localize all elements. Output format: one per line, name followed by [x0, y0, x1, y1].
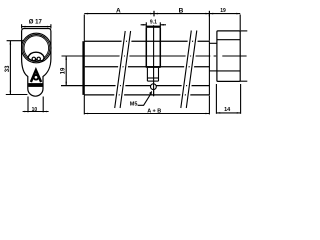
knob stub bottom	[240, 80, 247, 82]
dim 10 arrow right	[43, 111, 47, 113]
dim top line	[84, 13, 240, 15]
svg-text:A: A	[116, 7, 121, 14]
break line 4	[186, 31, 197, 109]
dim 14 line	[216, 112, 240, 114]
svg-text:M5: M5	[130, 102, 138, 108]
dim A arrow right	[150, 13, 154, 15]
knob inner line bottom	[217, 70, 240, 72]
dim top extension right	[239, 15, 241, 31]
dim A+B extension right	[208, 96, 210, 115]
face cap	[82, 41, 84, 95]
knob neck bottom line	[209, 70, 217, 72]
dim B arrow right	[206, 13, 210, 15]
svg-text:33: 33	[5, 65, 11, 72]
dim 19 left line	[65, 56, 67, 86]
cam center line	[153, 25, 155, 96]
break line 2	[120, 31, 131, 108]
dim 33 line	[9, 41, 11, 95]
dim 14 extension right	[240, 84, 242, 114]
M5 leader arrow	[149, 91, 152, 95]
dim 14 arrow right	[237, 112, 241, 114]
center line dash	[214, 55, 217, 57]
break line 3	[181, 31, 192, 109]
dim 10 extension left	[27, 97, 29, 113]
logo A	[31, 70, 41, 82]
svg-text:B: B	[179, 7, 184, 14]
dim 33 extension bottom	[6, 94, 28, 96]
dim 9.1 arrow right	[160, 24, 164, 26]
svg-text:9.1: 9.1	[150, 20, 157, 26]
plug ring inner	[24, 36, 49, 61]
dim Ø17 arrow right	[47, 26, 51, 28]
dim 19 arrow bottom	[65, 82, 67, 86]
cylinder hull outline	[22, 29, 51, 97]
dim A+B extension left	[83, 96, 85, 115]
knob stub top	[240, 30, 247, 32]
dim 33 arrow bottom	[10, 91, 12, 95]
dim 19t arrow left	[209, 13, 213, 15]
cam center line through hole	[153, 84, 155, 96]
dim Ø17 extension left	[21, 24, 23, 28]
dim 10 arrow left	[24, 111, 28, 113]
cam lower left edge	[146, 68, 148, 81]
dim 9.1 extension left	[145, 22, 147, 27]
keyway hole left	[32, 57, 35, 60]
svg-text:14: 14	[224, 107, 231, 113]
M5 leader	[138, 94, 151, 106]
dim 33 extension top	[7, 40, 24, 42]
body top line	[84, 40, 209, 42]
body bottom line	[84, 94, 209, 96]
break line 1	[115, 31, 126, 108]
cam left edge	[145, 28, 147, 68]
dim 14 arrow left	[216, 112, 220, 114]
svg-text:19: 19	[220, 8, 226, 14]
dim 10 extension right	[42, 97, 44, 113]
logo A loop	[34, 75, 39, 80]
M5 hole	[151, 84, 157, 90]
svg-text:A + B: A + B	[147, 108, 161, 114]
dim top extension mid	[208, 15, 210, 41]
dim 33 arrow top	[10, 41, 12, 45]
center line	[62, 55, 211, 57]
dim 9.1 line right	[160, 24, 166, 26]
dim 14 extension left	[215, 84, 217, 114]
cam lower line 2	[147, 80, 158, 82]
knob neck top line	[209, 42, 217, 44]
dim Ø17 extension right	[50, 24, 52, 28]
dim A arrow left	[84, 13, 88, 15]
body lower line	[61, 85, 209, 87]
center line knob	[222, 55, 246, 57]
cam bottom bar	[146, 66, 160, 68]
plug ring outer	[22, 33, 52, 63]
plug ring middle	[23, 35, 50, 62]
svg-text:Ø 17: Ø 17	[29, 19, 43, 25]
dim top extension left	[83, 15, 85, 41]
cam lower right edge	[158, 68, 160, 81]
svg-text:10: 10	[32, 107, 38, 113]
dim A+B arrow right	[206, 113, 210, 115]
break line gap masks	[115, 31, 197, 109]
dim 19t arrow right	[236, 13, 240, 15]
dim A+B arrow left	[84, 113, 88, 115]
dim Ø17 line	[22, 26, 51, 28]
dim B arrow left	[154, 13, 158, 15]
dim 9.1 arrow left	[143, 24, 147, 26]
keyway hole right	[37, 57, 40, 60]
dim tick A/B	[153, 11, 155, 17]
knob outline	[217, 31, 240, 82]
dim 9.1 line left	[141, 24, 147, 26]
face bar (black)	[28, 83, 42, 87]
cam lower line 1	[147, 77, 158, 79]
cam top bar	[146, 26, 161, 28]
body right edge	[208, 41, 210, 95]
knob inner line top	[217, 39, 240, 41]
dim tick B/19	[208, 11, 210, 17]
dim A+B line	[84, 113, 209, 115]
dim Ø17 arrow left	[22, 26, 26, 28]
dim 10 line	[23, 111, 49, 113]
body mid line	[85, 66, 210, 68]
keyway profile	[28, 52, 44, 61]
dim 9.1 extension right	[159, 22, 161, 27]
svg-text:19: 19	[60, 67, 66, 74]
dim 19 arrow top	[65, 56, 67, 60]
cam right edge	[159, 28, 161, 68]
